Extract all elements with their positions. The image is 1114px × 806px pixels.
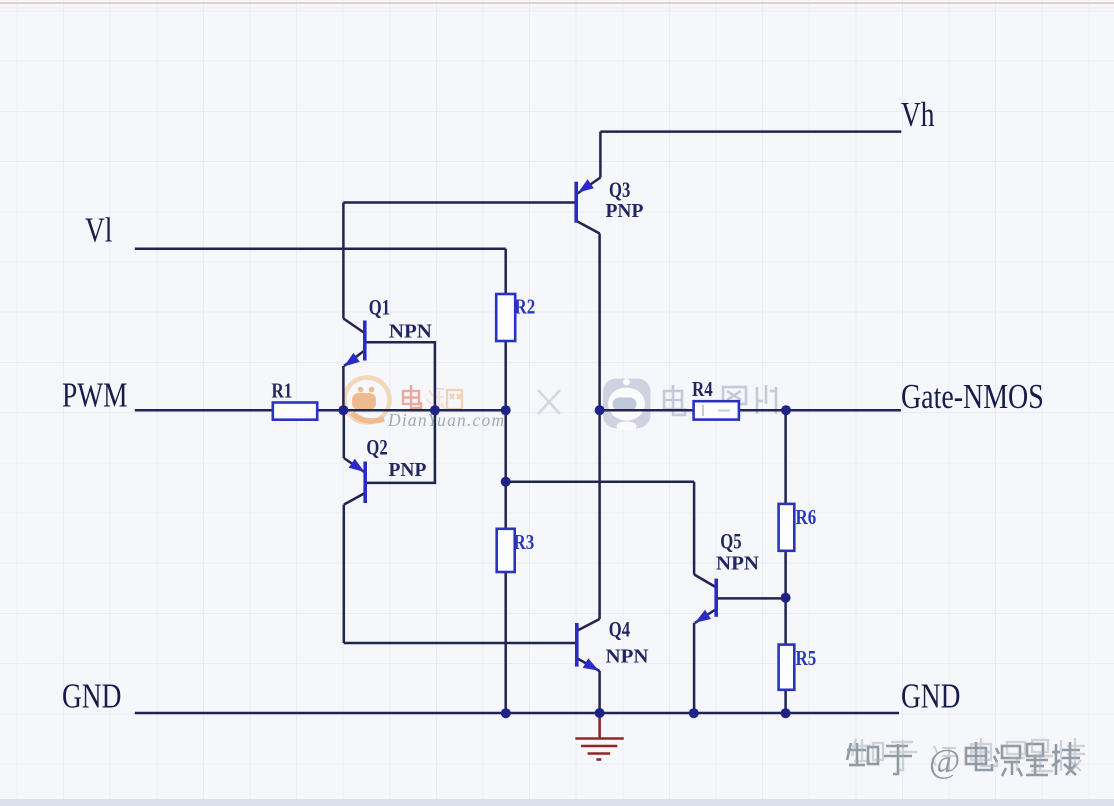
svg-text:GND: GND <box>62 677 121 716</box>
svg-text:R2: R2 <box>515 296 536 319</box>
svg-text:R3: R3 <box>514 531 535 554</box>
svg-text:Q5: Q5 <box>720 529 741 554</box>
svg-text:Q2: Q2 <box>366 435 387 460</box>
svg-text:R4: R4 <box>692 378 713 401</box>
svg-text:NPN: NPN <box>716 553 759 575</box>
svg-text:NPN: NPN <box>606 646 649 668</box>
svg-text:DianYuan.com: DianYuan.com <box>387 410 505 430</box>
svg-text:Q4: Q4 <box>609 617 630 642</box>
svg-text:R5: R5 <box>796 647 817 670</box>
svg-text:PWM: PWM <box>62 376 128 415</box>
svg-text:Gate-NMOS: Gate-NMOS <box>901 377 1044 415</box>
svg-text:NPN: NPN <box>389 321 432 343</box>
svg-text:PNP: PNP <box>606 200 644 223</box>
svg-text:R6: R6 <box>796 506 817 529</box>
svg-text:GND: GND <box>901 676 960 715</box>
svg-text:PNP: PNP <box>389 459 427 482</box>
svg-text:Q1: Q1 <box>369 295 390 320</box>
svg-text:Vh: Vh <box>901 95 935 134</box>
svg-text:Vl: Vl <box>85 211 113 250</box>
svg-text:R1: R1 <box>272 380 293 403</box>
